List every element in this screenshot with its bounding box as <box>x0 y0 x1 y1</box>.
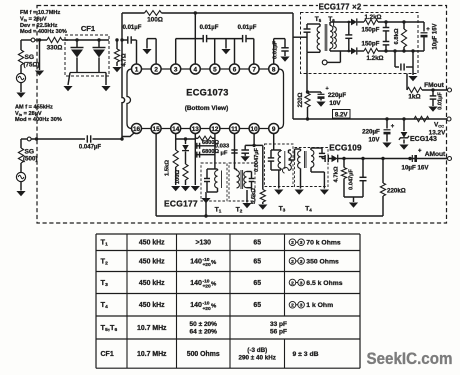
svg-text:0.047µF: 0.047µF <box>79 145 101 151</box>
svg-text:4: 4 <box>194 66 198 73</box>
svg-text:33 pF: 33 pF <box>270 321 287 328</box>
svg-text:220kΩ: 220kΩ <box>387 188 406 195</box>
svg-text:10µF 16V: 10µF 16V <box>402 165 430 172</box>
svg-text:140: 140 <box>190 302 202 309</box>
svg-text:(500): (500) <box>23 156 37 163</box>
svg-text:(Bottom View): (Bottom View) <box>185 105 229 112</box>
svg-text:ECG177: ECG177 <box>164 199 198 209</box>
svg-text:65: 65 <box>253 240 261 247</box>
svg-text:0.033: 0.033 <box>215 144 230 150</box>
svg-text:Mod = 400Hz 30%: Mod = 400Hz 30% <box>20 29 67 35</box>
svg-text:FMout: FMout <box>424 82 445 89</box>
svg-text:+20: +20 <box>202 262 211 268</box>
svg-text:0.0047µF: 0.0047µF <box>254 148 260 172</box>
svg-text:450 kHz: 450 kHz <box>139 280 165 287</box>
svg-text:ECG1073: ECG1073 <box>186 88 228 98</box>
svg-text:150pF: 150pF <box>362 41 380 48</box>
svg-text:µF: µF <box>221 151 228 157</box>
svg-text:10V: 10V <box>368 137 380 144</box>
svg-text:56 pF: 56 pF <box>270 328 287 335</box>
svg-text:T1: T1 <box>215 207 222 214</box>
svg-text:15: 15 <box>153 126 161 133</box>
svg-text:1 k Ohm: 1 k Ohm <box>306 302 333 309</box>
svg-text:10µF 16V: 10µF 16V <box>433 23 439 49</box>
svg-text:350 Ohms: 350 Ohms <box>306 258 339 265</box>
svg-text:5: 5 <box>213 66 217 73</box>
svg-text:T2: T2 <box>236 207 243 214</box>
svg-text:(-3 dB): (-3 dB) <box>247 347 267 354</box>
svg-text:-10: -10 <box>202 257 209 263</box>
svg-text:10: 10 <box>251 126 259 133</box>
svg-text:1: 1 <box>135 66 139 73</box>
svg-text:11: 11 <box>231 126 238 133</box>
svg-text:3: 3 <box>300 259 303 265</box>
svg-text:SG: SG <box>25 149 35 156</box>
svg-text:+: + <box>391 124 395 130</box>
svg-text:1.5kΩ: 1.5kΩ <box>165 160 171 176</box>
svg-text:T3: T3 <box>279 206 286 213</box>
svg-text:2: 2 <box>291 303 294 309</box>
svg-text:100Ω: 100Ω <box>147 16 163 23</box>
svg-text:VCC: VCC <box>434 122 444 129</box>
svg-text:+: + <box>418 149 422 155</box>
svg-text:6.8kΩ: 6.8kΩ <box>394 28 400 44</box>
svg-text:CF1: CF1 <box>81 24 96 33</box>
svg-text:6800Ω: 6800Ω <box>202 149 219 155</box>
svg-text:+: + <box>426 27 430 33</box>
svg-text:12: 12 <box>211 126 219 133</box>
svg-text:14: 14 <box>172 126 180 133</box>
svg-text:65: 65 <box>253 302 261 309</box>
svg-text:FM f = 10.7MHz: FM f = 10.7MHz <box>20 10 60 16</box>
svg-text:1.2kΩ: 1.2kΩ <box>364 14 381 21</box>
svg-text:140: 140 <box>190 280 202 287</box>
svg-text:0.01µF: 0.01µF <box>123 25 142 31</box>
svg-text:T4: T4 <box>305 206 312 213</box>
svg-text:450 kHz: 450 kHz <box>139 302 165 309</box>
svg-text:65: 65 <box>253 280 261 287</box>
svg-text:5.6kΩ: 5.6kΩ <box>251 188 257 204</box>
svg-text:13: 13 <box>192 126 200 133</box>
svg-text:50 ± 20%: 50 ± 20% <box>190 321 218 328</box>
svg-text:%: % <box>211 304 217 310</box>
svg-text:AMout: AMout <box>425 151 446 158</box>
svg-text:>130: >130 <box>195 240 211 247</box>
svg-text:+20: +20 <box>202 284 211 290</box>
svg-text:CF1: CF1 <box>101 351 114 358</box>
svg-text:Dev = 22.5kHz: Dev = 22.5kHz <box>20 23 58 29</box>
svg-text:220µF: 220µF <box>328 92 346 99</box>
svg-text:0.01µF: 0.01µF <box>238 25 257 31</box>
svg-text:Mod = 400Hz 30%: Mod = 400Hz 30% <box>15 117 62 123</box>
svg-text:+20: +20 <box>202 306 211 312</box>
svg-text:-10: -10 <box>202 278 209 284</box>
svg-text:9 ± 3 dB: 9 ± 3 dB <box>293 351 319 358</box>
svg-text:3: 3 <box>300 280 303 286</box>
svg-text:10V: 10V <box>329 100 341 107</box>
svg-text:3: 3 <box>300 240 303 246</box>
svg-text:ECG143: ECG143 <box>410 136 437 143</box>
svg-text:64 ± 20%: 64 ± 20% <box>190 328 218 335</box>
svg-text:500 Ohms: 500 Ohms <box>187 351 220 358</box>
svg-text:6: 6 <box>233 66 237 73</box>
svg-text:0.01µF: 0.01µF <box>273 40 279 59</box>
svg-text:0.047µF: 0.047µF <box>349 169 355 190</box>
svg-text:8.2V: 8.2V <box>335 111 349 118</box>
svg-text:220Ω: 220Ω <box>298 92 304 107</box>
svg-text:7: 7 <box>252 66 256 73</box>
svg-text:65: 65 <box>253 258 261 265</box>
svg-text:T5: T5 <box>315 16 322 23</box>
svg-text:16: 16 <box>133 126 141 133</box>
svg-text:1kΩ: 1kΩ <box>408 94 420 101</box>
svg-text:150pF: 150pF <box>362 27 380 34</box>
svg-text:%: % <box>211 260 217 266</box>
svg-text:AM f = 455kHz: AM f = 455kHz <box>15 105 53 111</box>
svg-text:2: 2 <box>291 280 294 286</box>
svg-text:220µF: 220µF <box>362 129 380 136</box>
svg-text:0.01µF: 0.01µF <box>438 92 444 110</box>
svg-text:-10: -10 <box>202 301 209 307</box>
svg-text:(75Ω): (75Ω) <box>24 62 40 69</box>
svg-text:6.5 k Ohms: 6.5 k Ohms <box>306 280 342 287</box>
svg-text:4.7kΩ: 4.7kΩ <box>334 166 340 182</box>
svg-text:2: 2 <box>291 259 294 265</box>
svg-text:70 k Ohms: 70 k Ohms <box>306 240 341 247</box>
svg-text:290 ± 40 kHz: 290 ± 40 kHz <box>239 355 276 362</box>
svg-text:3: 3 <box>300 303 303 309</box>
svg-text:ECG177 ×2: ECG177 ×2 <box>319 3 362 12</box>
svg-text:450 kHz: 450 kHz <box>139 258 165 265</box>
svg-text:ECG109: ECG109 <box>329 144 362 153</box>
svg-text:10.7 MHz: 10.7 MHz <box>137 351 167 358</box>
svg-text:%: % <box>211 281 217 287</box>
svg-text:2: 2 <box>291 240 294 246</box>
svg-text:9: 9 <box>272 126 276 133</box>
svg-text:SeekIC.com: SeekIC.com <box>367 349 453 368</box>
svg-text:10.7 MHz: 10.7 MHz <box>137 325 167 332</box>
svg-text:330Ω: 330Ω <box>47 45 63 52</box>
svg-text:450 kHz: 450 kHz <box>139 240 165 247</box>
svg-text:8: 8 <box>272 66 276 73</box>
svg-text:100Ω: 100Ω <box>175 169 181 184</box>
svg-text:2: 2 <box>154 66 158 73</box>
svg-text:3: 3 <box>174 66 178 73</box>
svg-text:140: 140 <box>190 258 202 265</box>
svg-text:SG: SG <box>25 54 35 61</box>
svg-text:0.01µF: 0.01µF <box>200 25 219 31</box>
svg-text:1.2kΩ: 1.2kΩ <box>366 55 383 62</box>
